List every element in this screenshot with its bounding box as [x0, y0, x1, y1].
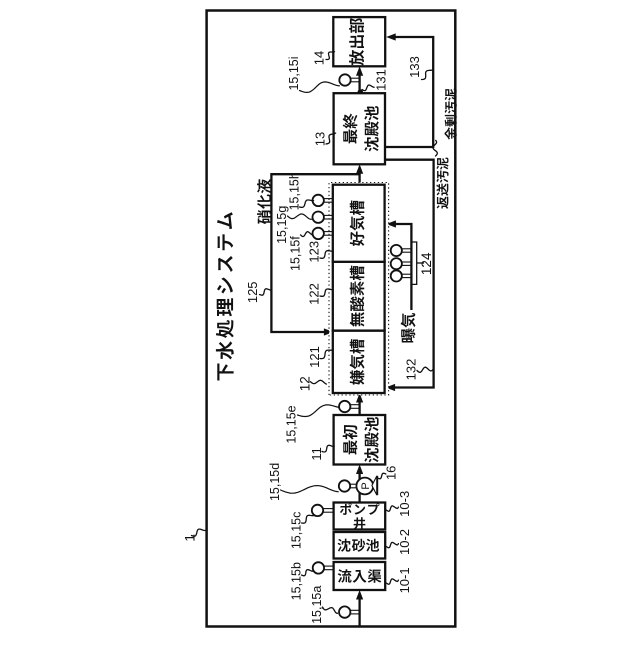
sensor 15,15f	[313, 228, 333, 239]
svg-text:12: 12	[298, 376, 313, 391]
sensor 15,15g	[313, 212, 333, 223]
label 15,15b	[289, 562, 303, 600]
label 10-2	[397, 529, 412, 555]
leader 13	[326, 133, 336, 144]
sensor 15,15d	[339, 480, 357, 491]
sensor 15,15i	[339, 74, 358, 85]
svg-text:132: 132	[404, 359, 419, 381]
svg-text:15,15h: 15,15h	[287, 172, 301, 210]
pump 16	[356, 476, 377, 495]
leader 15,15f	[301, 232, 313, 237]
leader 15,15g	[288, 214, 312, 219]
svg-text:125: 125	[245, 281, 260, 303]
label 10-3	[397, 491, 412, 517]
box 嫌気槽 121	[333, 331, 385, 393]
leader 11	[322, 445, 334, 452]
svg-text:15,15f: 15,15f	[288, 236, 302, 271]
svg-text:124: 124	[419, 252, 434, 275]
label 11	[309, 447, 324, 461]
svg-text:16: 16	[383, 466, 398, 480]
leader 15,15e	[298, 405, 340, 417]
leader 10-3	[386, 506, 398, 511]
label 15,15e	[285, 405, 299, 443]
label 15,15c	[290, 512, 304, 550]
leader 123	[320, 251, 333, 259]
label 返送汚泥	[436, 158, 448, 209]
sensor 15,15h	[313, 195, 333, 206]
label 14	[312, 51, 327, 65]
wire 曝気 air supply into 好気槽	[386, 220, 411, 310]
junction dot on line 131	[358, 89, 364, 95]
box 最初沈殿池 11	[334, 415, 386, 465]
label 123	[307, 241, 322, 263]
wire 最初沈殿池 to 嫌気槽	[356, 393, 363, 415]
bracket for 124	[412, 242, 424, 284]
aeration diffusers 124	[391, 245, 411, 282]
leader 16	[378, 473, 386, 478]
leader 15,15d	[281, 486, 339, 494]
wire pump to 最初沈殿池	[356, 465, 363, 480]
label 124	[419, 252, 434, 275]
dashed box reactor 12	[329, 183, 389, 396]
label 125	[245, 281, 260, 303]
wire ポンプ井 to pump	[358, 493, 360, 503]
label 16	[383, 466, 398, 480]
svg-text:11: 11	[309, 447, 324, 461]
label 15,15a	[310, 586, 324, 624]
sensor 15,15c	[312, 505, 333, 516]
svg-text:15,15a: 15,15a	[310, 586, 324, 624]
sensor 15,15e	[339, 401, 359, 412]
label 10-1	[397, 567, 412, 593]
leader 12	[311, 380, 327, 384]
leader 15,15a	[323, 607, 338, 613]
svg-text:1: 1	[181, 534, 197, 542]
leader 10-2	[386, 542, 398, 547]
svg-text:14: 14	[312, 51, 327, 65]
label 12	[298, 376, 313, 391]
svg-text:123: 123	[307, 241, 322, 263]
wire 好気槽 to 最終沈殿池	[356, 164, 363, 184]
svg-text:121: 121	[307, 346, 322, 368]
svg-text:10-2: 10-2	[397, 529, 412, 555]
box 沈砂池 10-2	[334, 532, 386, 559]
leader 15,15i	[300, 82, 340, 93]
label 15,15d	[268, 463, 282, 501]
sensor 15,15a	[339, 606, 359, 617]
leader 15,15c	[302, 515, 315, 523]
label 131	[374, 69, 389, 91]
svg-text:15,15d: 15,15d	[268, 463, 282, 501]
label 硝化液	[257, 179, 271, 224]
leader 132	[417, 367, 433, 372]
wire 余剰汚泥 excess sludge 133	[385, 33, 434, 147]
box 放出部 14	[333, 17, 385, 66]
box 最終沈殿池 13	[334, 93, 385, 164]
box ポンプ井 10-3	[334, 503, 386, 530]
box 流入渠 10-1	[334, 562, 386, 590]
leader 14	[326, 52, 335, 60]
svg-text:15,15b: 15,15b	[289, 562, 303, 600]
leader 125	[260, 289, 272, 295]
svg-text:15,15e: 15,15e	[285, 405, 299, 443]
box 無酸素槽 122	[333, 262, 385, 331]
label 1	[181, 534, 197, 542]
sensor 15,15b	[313, 562, 333, 573]
outer frame of system 1	[207, 11, 456, 627]
svg-text:15,15i: 15,15i	[287, 56, 301, 90]
leader 122	[320, 289, 333, 296]
leader from label 1	[192, 529, 207, 537]
label 15,15i	[287, 56, 301, 90]
label 122	[307, 283, 322, 305]
svg-text:131: 131	[374, 69, 389, 91]
label 133	[407, 56, 422, 78]
wire 硝化液 recirculation 125	[271, 174, 359, 335]
label 曝気	[401, 313, 416, 342]
label 15,15h	[287, 172, 301, 210]
svg-text:122: 122	[307, 283, 322, 305]
svg-text:133: 133	[407, 56, 422, 78]
label 121	[307, 346, 322, 368]
tilde on 余剰汚泥 line	[433, 140, 437, 156]
label 15,15f	[288, 236, 302, 271]
svg-text:10-1: 10-1	[397, 567, 412, 593]
svg-text:15,15c: 15,15c	[290, 512, 304, 550]
leader 121	[320, 350, 333, 359]
wire 返送汚泥 return sludge 132	[385, 160, 434, 391]
leader 10-1	[386, 579, 398, 584]
box 好気槽 123	[333, 185, 385, 262]
svg-text:10-3: 10-3	[397, 491, 412, 517]
title 下水処理システム	[216, 212, 234, 380]
leader 131	[362, 85, 374, 91]
wire 最終沈殿池 to 放出部 131	[356, 66, 363, 93]
label 13	[313, 132, 328, 146]
leader 15,15b	[302, 570, 313, 576]
leader 15,15h	[300, 200, 314, 207]
wire inflow into 流入渠	[356, 590, 363, 627]
label 余剰汚泥	[445, 88, 457, 139]
label 15,15g	[275, 206, 289, 244]
label 132	[404, 359, 419, 381]
leader 133	[422, 70, 433, 80]
svg-text:P: P	[360, 482, 372, 489]
